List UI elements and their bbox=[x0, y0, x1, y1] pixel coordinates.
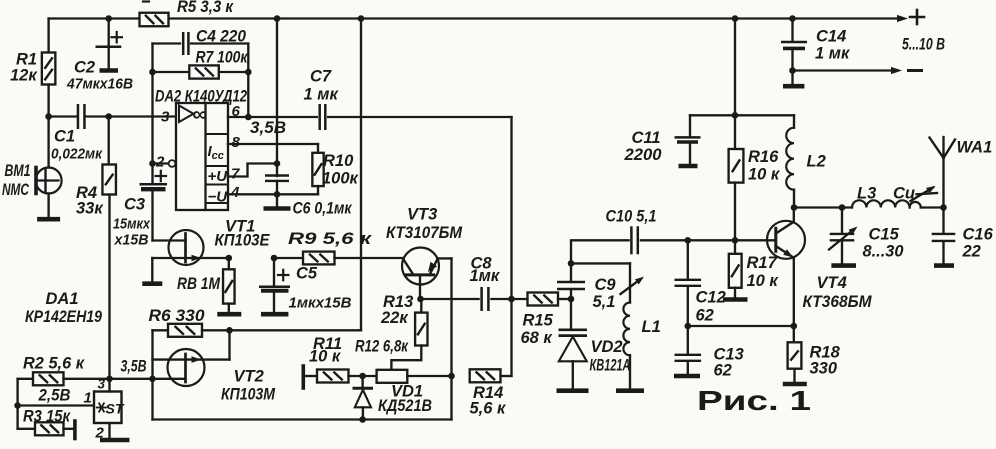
svg-text:5,1: 5,1 bbox=[593, 293, 616, 311]
svg-text:С10 5,1: С10 5,1 bbox=[606, 208, 657, 226]
svg-text:62: 62 bbox=[696, 307, 714, 325]
svg-text:КТ3107БМ: КТ3107БМ bbox=[386, 224, 463, 242]
svg-text:С7: С7 bbox=[310, 68, 332, 86]
svg-text:WA1: WA1 bbox=[957, 139, 993, 157]
svg-text:4: 4 bbox=[230, 184, 240, 201]
svg-text:R3 15к: R3 15к bbox=[23, 408, 71, 426]
svg-text:10 к: 10 к bbox=[748, 166, 781, 184]
svg-text:С4 220: С4 220 bbox=[196, 28, 247, 46]
svg-text:КР142ЕН19: КР142ЕН19 bbox=[25, 308, 103, 326]
svg-text:R2 5,6 к: R2 5,6 к bbox=[23, 355, 86, 373]
svg-text:47мкх16В: 47мкх16В bbox=[66, 76, 133, 93]
svg-text:С12: С12 bbox=[696, 289, 726, 307]
svg-text:3,5В: 3,5В bbox=[121, 358, 147, 376]
svg-text:С11: С11 bbox=[632, 129, 661, 147]
svg-text:L3: L3 bbox=[857, 185, 876, 203]
svg-text:1мк: 1мк bbox=[470, 267, 501, 285]
svg-text:КП103Е: КП103Е bbox=[215, 232, 271, 250]
svg-text:∞: ∞ bbox=[193, 103, 208, 126]
svg-text:R17: R17 bbox=[747, 254, 778, 272]
svg-text:С5: С5 bbox=[296, 265, 318, 283]
svg-text:С15: С15 bbox=[869, 226, 900, 244]
svg-text:ST: ST bbox=[106, 401, 125, 417]
svg-text:2: 2 bbox=[95, 425, 105, 442]
svg-text:2200: 2200 bbox=[623, 146, 662, 164]
svg-text:С6 0,1мк: С6 0,1мк bbox=[293, 200, 353, 218]
svg-text:3,5В: 3,5В bbox=[250, 119, 286, 137]
svg-text:NМС: NМС bbox=[2, 181, 30, 199]
svg-text:+U: +U bbox=[208, 168, 229, 185]
svg-text:С16: С16 bbox=[963, 226, 994, 244]
svg-text:1 мк: 1 мк bbox=[815, 45, 851, 63]
svg-text:62: 62 bbox=[714, 362, 732, 380]
svg-text:VT2: VT2 bbox=[234, 368, 264, 386]
svg-text:DA1: DA1 bbox=[46, 290, 79, 308]
svg-text:R9 5,6 к: R9 5,6 к bbox=[288, 230, 373, 248]
svg-text:100к: 100к bbox=[322, 170, 360, 188]
svg-text:КТ368БМ: КТ368БМ bbox=[803, 293, 873, 311]
svg-text:L1: L1 bbox=[642, 318, 661, 336]
svg-text:5,6 к: 5,6 к bbox=[470, 400, 508, 418]
svg-text:С1: С1 bbox=[54, 128, 75, 146]
svg-text:R12 6,8к: R12 6,8к bbox=[355, 338, 409, 356]
svg-text:R6 330: R6 330 bbox=[149, 307, 206, 325]
svg-text:С14: С14 bbox=[816, 28, 846, 46]
svg-text:0,022мк: 0,022мк bbox=[51, 146, 103, 163]
svg-text:R16: R16 bbox=[748, 148, 779, 166]
svg-text:КВ121А: КВ121А bbox=[590, 357, 631, 375]
svg-text:8: 8 bbox=[232, 134, 241, 151]
svg-text:С2: С2 bbox=[74, 59, 95, 77]
svg-text:3: 3 bbox=[161, 109, 170, 126]
svg-text:5...10 В: 5...10 В bbox=[902, 36, 945, 54]
svg-text:КП103М: КП103М bbox=[221, 386, 276, 404]
svg-text:L2: L2 bbox=[807, 153, 826, 171]
svg-text:8...30: 8...30 bbox=[863, 243, 905, 261]
svg-text:12к: 12к bbox=[10, 67, 38, 85]
svg-text:15мкх: 15мкх bbox=[113, 216, 151, 233]
svg-text:VT4: VT4 bbox=[817, 274, 847, 292]
svg-text:R5 3,3 к: R5 3,3 к bbox=[177, 0, 234, 16]
svg-text:2,5В: 2,5В bbox=[38, 387, 71, 405]
svg-text:С3: С3 bbox=[124, 196, 145, 214]
svg-text:VT3: VT3 bbox=[407, 206, 437, 224]
svg-text:2: 2 bbox=[155, 154, 165, 171]
svg-text:R15: R15 bbox=[523, 312, 554, 330]
svg-text:10 к: 10 к bbox=[309, 348, 342, 366]
svg-text:7: 7 bbox=[231, 166, 240, 183]
svg-text:R7 100к: R7 100к bbox=[196, 49, 249, 67]
svg-text:С9: С9 bbox=[595, 276, 617, 294]
svg-text:RВ 1М: RВ 1М bbox=[177, 275, 221, 293]
svg-text:1: 1 bbox=[84, 390, 92, 407]
svg-text:22к: 22к bbox=[380, 309, 409, 327]
svg-text:3: 3 bbox=[98, 377, 106, 392]
svg-text:КД521В: КД521В bbox=[378, 397, 432, 415]
svg-text:68 к: 68 к bbox=[521, 329, 554, 347]
svg-text:Рис. 1: Рис. 1 bbox=[697, 385, 811, 416]
svg-text:1 мк: 1 мк bbox=[304, 86, 340, 104]
svg-text:1мкх15В: 1мкх15В bbox=[289, 295, 352, 312]
svg-text:10 к: 10 к bbox=[747, 272, 780, 290]
svg-text:33к: 33к bbox=[76, 200, 104, 218]
svg-text:х15В: х15В bbox=[114, 232, 149, 249]
svg-text:22: 22 bbox=[962, 243, 981, 261]
svg-text:VD2: VD2 bbox=[591, 338, 623, 356]
svg-text:ВМ1: ВМ1 bbox=[5, 162, 31, 180]
svg-text:330: 330 bbox=[810, 360, 838, 378]
svg-text:R10: R10 bbox=[323, 152, 354, 170]
svg-text:−U: −U bbox=[208, 189, 229, 206]
